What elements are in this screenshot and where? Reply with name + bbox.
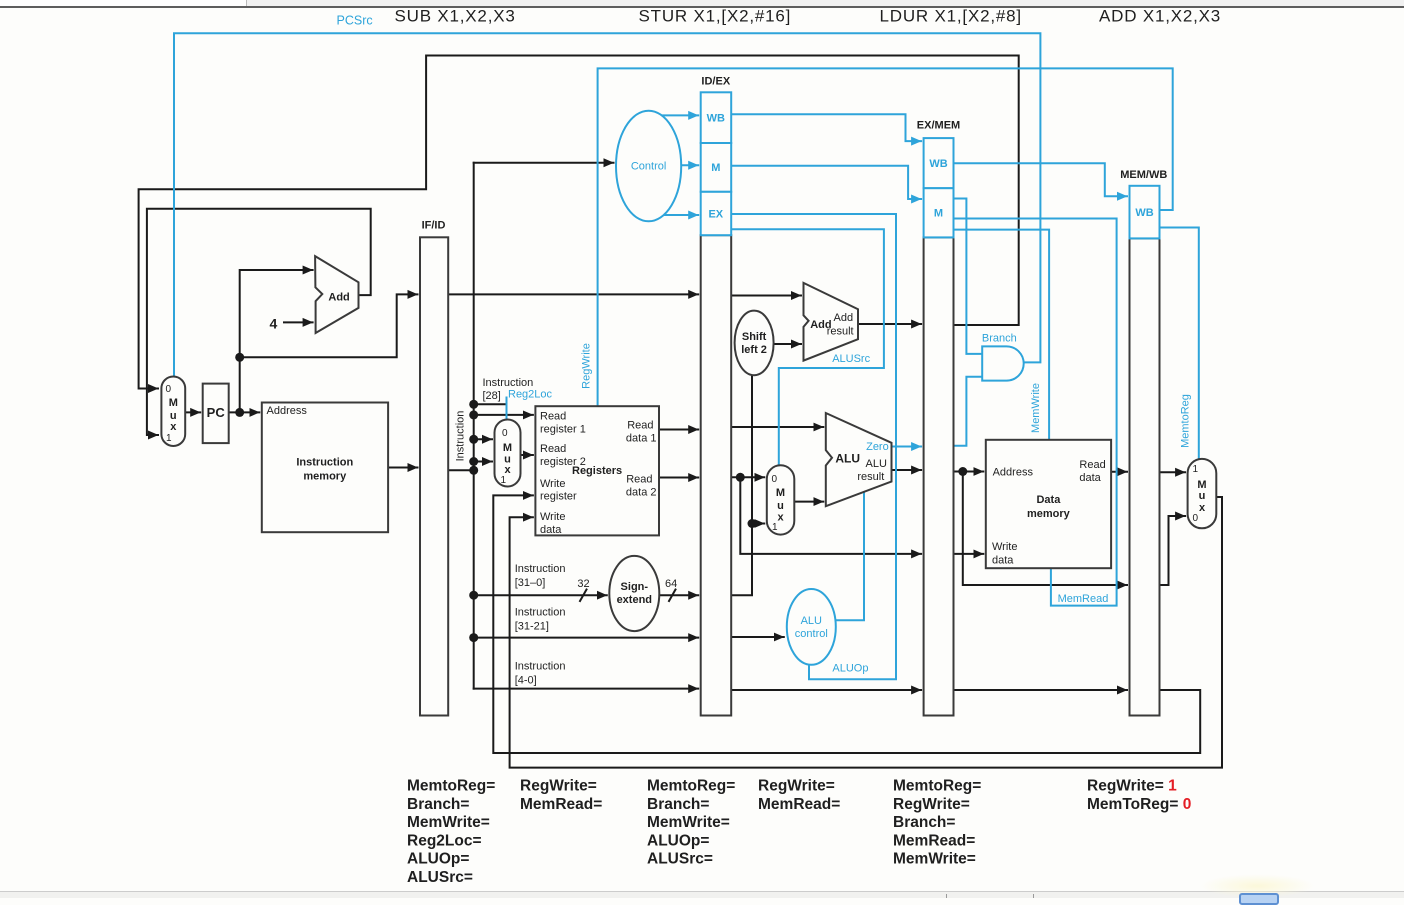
wire: ID/EX WB to EX/MEM WB <box>731 114 921 141</box>
svg-text:1: 1 <box>501 475 507 486</box>
node: PC output junction <box>235 408 244 417</box>
wire: ID/EX PC to branch Add <box>731 295 801 297</box>
svg-text:Add: Add <box>328 292 349 304</box>
wire: MemtoReg from MEM/WB WB to result mux select <box>1160 228 1199 459</box>
wire: Branch signal to AND gate <box>954 199 982 354</box>
label Registers <box>572 465 622 477</box>
wire: PC to IF/ID <box>240 294 418 357</box>
label WB (MEM/WB) <box>1135 207 1153 219</box>
svg-text:x: x <box>777 512 784 524</box>
label WB (EX/MEM) <box>929 158 947 170</box>
label Reg2Loc <box>508 389 553 401</box>
label control column 4 <box>758 778 840 813</box>
svg-text:[4-0]: [4-0] <box>515 675 537 687</box>
svg-text:left 2: left 2 <box>741 344 767 356</box>
wire: ALUSrc mux output to ALU <box>794 501 823 503</box>
label Control <box>631 161 666 173</box>
svg-text:M: M <box>934 208 943 220</box>
mux ALUSrc <box>767 465 795 534</box>
svg-text:M: M <box>711 162 720 174</box>
wire: reg2loc mux output to Read register 2 <box>521 454 533 456</box>
svg-text:MemRead=: MemRead= <box>520 796 602 813</box>
svg-text:Add: Add <box>834 312 854 324</box>
svg-text:Instruction: Instruction <box>455 411 467 462</box>
shift left 2 oval <box>735 311 774 376</box>
svg-text:data: data <box>992 555 1014 567</box>
svg-text:MemWrite=: MemWrite= <box>647 814 730 831</box>
wire: mux output to PC <box>185 411 200 413</box>
mux MemtoReg result <box>1188 459 1217 528</box>
label 32 <box>577 578 589 590</box>
wire: EX/MEM WB to MEM/WB WB <box>954 163 1128 196</box>
svg-text:ALUSrc: ALUSrc <box>832 353 870 365</box>
wire: ID/EX read data 1 to ALU input <box>731 426 823 428</box>
svg-text:[31-21]: [31-21] <box>515 621 549 633</box>
svg-text:Instruction: Instruction <box>515 563 566 575</box>
svg-text:ALU: ALU <box>801 615 822 627</box>
label Read data 1 <box>626 420 657 445</box>
wire: Instruction[28] tap to Reg2Loc mux select <box>474 403 507 405</box>
svg-text:1: 1 <box>1193 464 1199 475</box>
svg-text:M: M <box>776 487 785 499</box>
wire: Zero flag ALU to EX/MEM <box>892 446 922 448</box>
label Read register 2 <box>540 443 586 468</box>
svg-text:PCSrc: PCSrc <box>337 14 373 28</box>
label MemtoReg vertical <box>1180 394 1192 448</box>
label Shift left 2 <box>741 331 767 356</box>
svg-text:Write: Write <box>540 511 565 523</box>
svg-text:WB: WB <box>1135 207 1153 219</box>
label Instruction [31-0] <box>515 563 566 589</box>
svg-text:Branch=: Branch= <box>407 796 469 813</box>
PC register box <box>203 384 229 444</box>
svg-text:Instruction: Instruction <box>515 607 566 619</box>
svg-text:Read: Read <box>1079 459 1105 471</box>
svg-text:Branch=: Branch= <box>647 796 709 813</box>
data memory box <box>986 440 1111 568</box>
label Sign-extend <box>617 581 652 606</box>
label IF/ID <box>422 220 446 232</box>
label WB (ID/EX) <box>707 113 725 125</box>
svg-text:data: data <box>540 524 562 536</box>
wire: write register ID/EX to EX/MEM <box>731 689 921 691</box>
label Write register <box>540 478 577 503</box>
svg-text:RegWrite=: RegWrite= <box>758 778 835 795</box>
label Add <box>328 292 349 304</box>
AND gate branch <box>982 346 1024 380</box>
wire: instruction bus vertical <box>473 163 475 689</box>
wire: ID/EX M to EX/MEM M <box>731 166 921 199</box>
top instruction labels <box>395 7 1222 26</box>
svg-text:ALUOp: ALUOp <box>832 663 868 675</box>
ALU control oval <box>787 589 836 665</box>
label PC <box>207 405 226 420</box>
label ALU <box>835 452 860 466</box>
label Read data (memory) <box>1079 459 1105 484</box>
label MemWrite vertical <box>1030 383 1042 433</box>
svg-text:1: 1 <box>166 433 172 444</box>
wire: MEM/WB ALU result to result mux input 0 <box>1160 516 1186 585</box>
blue labels <box>337 14 1192 675</box>
svg-text:Write: Write <box>540 478 565 490</box>
wire: Read data 2 to ID/EX <box>659 477 698 479</box>
wire: branch target from EX/MEM around top to PC mux input 0 <box>139 56 1019 389</box>
wire: write register MEM/WB around bottom to Registers write register <box>493 495 1200 753</box>
svg-text:MemRead=: MemRead= <box>758 796 840 813</box>
svg-text:Data: Data <box>1036 494 1061 506</box>
svg-text:MemtoReg=: MemtoReg= <box>647 778 735 795</box>
node: tap Instruction[28] <box>469 400 478 409</box>
label Branch <box>982 333 1017 345</box>
wire: PC to instruction memory address <box>229 411 260 413</box>
svg-text:PC: PC <box>207 405 226 420</box>
label ALU result <box>857 458 887 483</box>
svg-text:MemWrite: MemWrite <box>1030 383 1042 433</box>
svg-text:result: result <box>857 471 884 483</box>
instruction memory box <box>262 403 388 533</box>
svg-text:0: 0 <box>166 384 172 395</box>
label PCSrc <box>337 14 373 28</box>
svg-text:RegWrite: RegWrite <box>581 343 593 389</box>
label mux2 <box>501 428 513 486</box>
wire: read data 2 down to EX/MEM store data <box>740 477 921 554</box>
svg-text:MemtoReg=: MemtoReg= <box>407 778 495 795</box>
svg-text:data: data <box>1079 472 1101 484</box>
label Add (branch) <box>810 319 831 331</box>
ID/EX WB field <box>701 92 732 143</box>
wire: MEM/WB read data to result mux input 1 <box>1160 471 1186 473</box>
node: tap instruction 31-21 <box>469 633 478 642</box>
svg-text:ALUOp=: ALUOp= <box>647 832 709 849</box>
label mux3 <box>772 474 786 533</box>
svg-text:WB: WB <box>707 113 725 125</box>
svg-text:MemRead: MemRead <box>1058 593 1109 605</box>
svg-text:LDUR X1,[X2,#8]: LDUR X1,[X2,#8] <box>880 7 1022 26</box>
label SUB instruction <box>395 7 516 26</box>
wire: Control to ID/EX EX <box>660 214 698 216</box>
pipeline register MEM/WB <box>1130 238 1160 715</box>
svg-text:Zero: Zero <box>866 441 889 453</box>
svg-text:RegWrite=: RegWrite= <box>893 796 970 813</box>
svg-text:Branch: Branch <box>982 333 1017 345</box>
node: instruction bus tap <box>469 466 478 475</box>
svg-text:M: M <box>169 397 178 409</box>
svg-text:Shift: Shift <box>742 331 767 343</box>
svg-text:MemRead=: MemRead= <box>893 832 975 849</box>
svg-text:memory: memory <box>1027 508 1071 520</box>
label control column 3 <box>647 778 735 868</box>
svg-text:32: 32 <box>577 578 589 590</box>
wire: instruction to reg2loc mux input 1 <box>474 461 492 463</box>
label STUR instruction <box>639 7 792 26</box>
label M (ID/EX) <box>711 162 720 174</box>
svg-text:MemToReg= 0: MemToReg= 0 <box>1087 796 1191 813</box>
svg-text:SUB X1,X2,X3: SUB X1,X2,X3 <box>395 7 516 26</box>
svg-text:memory: memory <box>303 471 347 483</box>
svg-text:u: u <box>1199 490 1206 502</box>
svg-text:Control: Control <box>631 161 666 173</box>
wire: branch Add result to EX/MEM <box>858 323 921 325</box>
label ID/EX <box>701 76 730 88</box>
mux PC source <box>161 377 185 447</box>
label Zero <box>866 441 889 453</box>
svg-text:4: 4 <box>270 316 278 332</box>
wire: instruction to reg2loc mux input 0 <box>474 438 492 440</box>
svg-text:WB: WB <box>929 158 947 170</box>
svg-text:[31–0]: [31–0] <box>515 577 546 589</box>
svg-text:Sign-: Sign- <box>621 581 649 593</box>
node: read data 2 junction <box>736 473 745 482</box>
svg-text:Reg2Loc: Reg2Loc <box>508 389 553 401</box>
node: tap instruction 31-0 <box>469 591 478 600</box>
label Instruction [28] <box>483 377 534 402</box>
node: ALU result junction <box>958 467 967 476</box>
label ALUOp <box>832 663 868 675</box>
wire: MemWrite from EX/MEM M to data memory top <box>954 230 1050 439</box>
wire: PC through IF/ID to ID/EX <box>448 293 698 295</box>
width tick 64 <box>669 590 676 602</box>
node: tap mux input 0 <box>469 435 478 444</box>
svg-text:Read: Read <box>627 420 653 432</box>
svg-text:Instruction: Instruction <box>483 377 534 389</box>
node: immediate junction <box>748 519 757 528</box>
pipeline register EX/MEM <box>924 237 954 715</box>
wire: ALUSrc from ID/EX EX down to ALUSrc mux select <box>731 229 884 464</box>
pipeline register IF/ID <box>420 237 448 715</box>
svg-text:[28]: [28] <box>483 390 501 402</box>
partially visible blue button <box>1239 893 1279 905</box>
wire: instruction memory to IF/ID <box>388 467 417 469</box>
svg-text:MemWrite=: MemWrite= <box>407 814 490 831</box>
wire: shift left 2 to branch Add <box>774 343 801 345</box>
wire: Reg2Loc select into mux <box>506 398 508 419</box>
wire: MemRead from EX/MEM M to data memory bottom <box>954 219 1117 606</box>
label RegWrite vertical <box>581 343 593 389</box>
bottom status bar <box>0 891 1404 892</box>
node: tap read register 1 <box>469 410 478 419</box>
label Instruction memory <box>296 456 353 482</box>
label mux4 <box>1193 464 1207 524</box>
node: junction to IF/ID PC line <box>235 353 244 362</box>
svg-text:Reg2Loc=: Reg2Loc= <box>407 832 482 849</box>
svg-text:EX: EX <box>708 209 723 221</box>
wire: Control to ID/EX M <box>681 164 698 166</box>
label MemRead <box>1058 593 1109 605</box>
svg-text:RegWrite= 1: RegWrite= 1 <box>1087 778 1177 795</box>
ID/EX EX field <box>701 192 732 235</box>
pipeline register ID/EX <box>701 235 732 715</box>
label Address (data memory) <box>993 467 1034 479</box>
bottom control signal labels <box>407 778 1191 887</box>
label control column 1 <box>407 778 495 887</box>
svg-text:Registers: Registers <box>572 465 622 477</box>
svg-text:x: x <box>170 421 177 433</box>
label LDUR instruction <box>880 7 1022 26</box>
svg-text:MemWrite=: MemWrite= <box>893 851 976 868</box>
wire: PCSrc from branch AND gate around top to PC mux select <box>174 33 1040 375</box>
wire: PC up to Add input <box>240 270 313 412</box>
wire: instruction to Control <box>474 162 614 164</box>
wire: RegWrite from MEM/WB around top to Registers <box>598 68 1173 405</box>
svg-text:Address: Address <box>993 467 1034 479</box>
svg-text:Write: Write <box>992 541 1017 553</box>
wire: sign-extend output to ID/EX <box>659 594 698 596</box>
label ALUSrc <box>832 353 870 365</box>
wire: ALU result to EX/MEM <box>892 469 922 471</box>
label ADD instruction <box>1099 7 1221 26</box>
wire: data memory read data to MEM/WB <box>1111 471 1127 473</box>
label EX (ID/EX) <box>708 209 723 221</box>
svg-text:0: 0 <box>772 474 778 485</box>
wire: ALU control to ALU operation input <box>836 493 864 621</box>
svg-text:ALUSrc=: ALUSrc= <box>647 851 713 868</box>
label control column 6 <box>1087 778 1191 813</box>
top toolbar strip <box>0 0 246 6</box>
label MEM/WB <box>1120 169 1167 181</box>
svg-text:RegWrite=: RegWrite= <box>520 778 597 795</box>
svg-text:result: result <box>827 326 854 338</box>
wire: ALU result bypass down to MEM/WB <box>963 472 1127 586</box>
label Write data (registers) <box>540 511 565 536</box>
label control column 2 <box>520 778 602 813</box>
svg-text:x: x <box>1199 502 1206 514</box>
svg-text:Branch=: Branch= <box>893 814 955 831</box>
wire: immediate to ALUSrc mux input 1 <box>752 523 764 525</box>
svg-text:Instruction: Instruction <box>296 456 353 468</box>
svg-text:MemtoReg=: MemtoReg= <box>893 778 981 795</box>
label EX/MEM <box>917 120 960 132</box>
wire: Control to ID/EX WB <box>660 114 698 116</box>
svg-text:ALU: ALU <box>866 458 887 470</box>
svg-text:Read: Read <box>540 443 566 455</box>
label mux1 <box>166 384 178 444</box>
wire: ID/EX immediate up to shift left 2 and ALUSrc mux input 1 <box>731 375 752 595</box>
label Add result <box>827 312 854 338</box>
label Data memory <box>1027 494 1071 520</box>
mux Reg2Loc <box>495 420 521 487</box>
ALU <box>826 413 892 506</box>
label Instruction vertical <box>455 411 467 462</box>
EX/MEM M field <box>924 188 954 237</box>
svg-text:Instruction: Instruction <box>515 661 566 673</box>
svg-text:0: 0 <box>1193 513 1199 524</box>
label Instruction [4-0] <box>515 661 566 687</box>
wire: Instruction[31-21] to ID/EX <box>474 637 699 639</box>
wire: Instruction[4-0] write register to ID/EX <box>474 688 699 690</box>
svg-text:register: register <box>540 491 577 503</box>
svg-text:ALUSrc=: ALUSrc= <box>407 869 473 886</box>
wire: IF/ID instruction output to bus <box>448 469 474 471</box>
svg-text:MemtoReg: MemtoReg <box>1180 394 1192 448</box>
svg-text:M: M <box>503 442 512 454</box>
sign-extend oval <box>609 556 659 631</box>
label ALU control <box>795 615 828 640</box>
EX/MEM WB field <box>924 138 954 188</box>
svg-text:Read: Read <box>540 411 566 423</box>
wire: ALUOp from ID/EX EX down to ALU control <box>731 214 896 679</box>
svg-text:ID/EX: ID/EX <box>701 76 730 88</box>
wire: ID/EX read data 2 to ALUSrc mux input 0 <box>731 476 764 478</box>
wire: constant 4 into Add <box>284 321 313 323</box>
svg-text:control: control <box>795 628 828 640</box>
svg-text:MEM/WB: MEM/WB <box>1120 169 1167 181</box>
svg-text:STUR X1,[X2,#16]: STUR X1,[X2,#16] <box>639 7 792 26</box>
wire: Instruction[31-0] to sign-extend <box>474 594 607 596</box>
control unit oval <box>616 111 681 222</box>
registers block <box>535 406 659 535</box>
width tick 32 <box>580 590 587 602</box>
svg-text:register 1: register 1 <box>540 424 586 436</box>
adder Add (branch target) <box>804 283 859 361</box>
svg-text:data 1: data 1 <box>626 433 657 445</box>
label Read register 1 <box>540 411 586 436</box>
wire: EX/MEM ALU result to data memory address <box>954 471 984 473</box>
wire: store data EX/MEM to data memory write data <box>954 553 984 555</box>
svg-text:ALU: ALU <box>835 452 860 466</box>
svg-text:1: 1 <box>772 522 778 533</box>
label Instruction [31-21] <box>515 607 566 633</box>
wire: ID/EX instruction to ALU control <box>731 636 784 638</box>
svg-text:EX/MEM: EX/MEM <box>917 120 960 132</box>
label 4 <box>270 316 278 332</box>
label Write data (memory) <box>992 541 1017 567</box>
MEM/WB WB field <box>1130 186 1160 239</box>
svg-text:IF/ID: IF/ID <box>422 220 446 232</box>
svg-text:u: u <box>777 500 784 512</box>
svg-text:0: 0 <box>502 428 508 439</box>
wire: result mux output around bottom to Registers write data <box>510 497 1222 768</box>
svg-text:extend: extend <box>617 594 652 606</box>
wire: Read data 1 to ID/EX <box>659 429 698 431</box>
svg-text:data 2: data 2 <box>626 487 657 499</box>
adder Add (PC+4) <box>315 256 358 333</box>
wire: Zero flag from EX/MEM to AND gate <box>954 377 982 446</box>
svg-text:64: 64 <box>665 578 677 590</box>
label M (EX/MEM) <box>934 208 943 220</box>
label Read data 2 <box>626 474 657 499</box>
node: tap mux input 1 <box>469 457 478 466</box>
wire: instruction to Read register 1 <box>474 414 533 416</box>
label Address (instruction memory) <box>267 405 308 417</box>
svg-text:Read: Read <box>626 474 652 486</box>
svg-text:ADD X1,X2,X3: ADD X1,X2,X3 <box>1099 7 1221 26</box>
wire: PC+4 from Add around to PC mux input 1 <box>147 209 371 435</box>
svg-text:ALUOp=: ALUOp= <box>407 851 469 868</box>
svg-text:Address: Address <box>267 405 308 417</box>
wire: write register EX/MEM to MEM/WB <box>954 689 1128 691</box>
label control column 5 <box>893 778 981 868</box>
ID/EX M field <box>701 143 732 192</box>
label 64 <box>665 578 677 590</box>
